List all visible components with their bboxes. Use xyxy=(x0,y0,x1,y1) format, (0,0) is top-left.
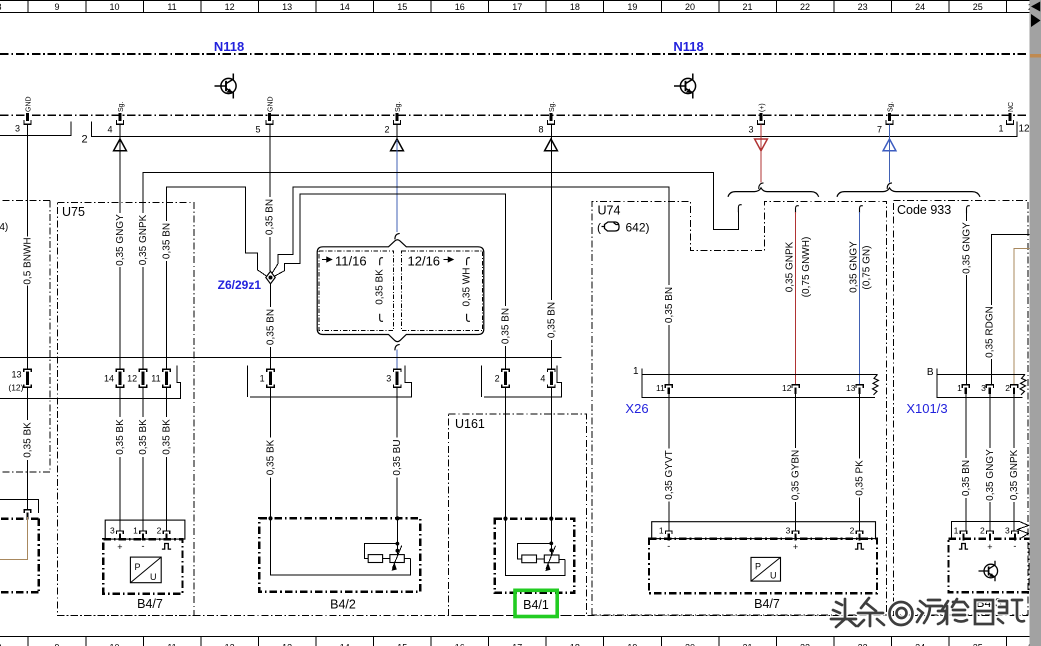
wire X101/3 pin3 to B4/3 pin 2 xyxy=(989,394,991,531)
svg-text:B4/2: B4/2 xyxy=(330,598,356,612)
arrow into 11/16 xyxy=(322,257,332,262)
wire label 0,35 BN pin5 xyxy=(265,197,276,237)
svg-text:13: 13 xyxy=(11,370,21,380)
svg-text:GND: GND xyxy=(25,96,32,112)
N118 box upper boundary xyxy=(0,53,1029,55)
top ruler xyxy=(0,0,1038,12)
wire pin5 BN down to junction xyxy=(269,125,271,272)
wire pin7 blue to brace xyxy=(889,125,891,183)
wire label 0,35 BN U74 xyxy=(664,285,675,325)
B4/1 entry dots xyxy=(503,517,507,521)
wire pin13 down to left component xyxy=(27,387,29,510)
X101/3 zigzag xyxy=(1020,374,1026,394)
svg-text:P: P xyxy=(135,562,141,572)
svg-text:2: 2 xyxy=(1005,383,1010,393)
svg-text:23: 23 xyxy=(858,643,868,646)
svg-text:2: 2 xyxy=(81,134,87,146)
svg-text:14: 14 xyxy=(340,2,350,12)
svg-text:+: + xyxy=(987,542,992,552)
svg-text:20: 20 xyxy=(685,2,695,12)
shield inner box 12/16 xyxy=(402,251,483,330)
watermark 头条@汽修日记 xyxy=(831,598,1024,627)
svg-text:13: 13 xyxy=(282,2,292,12)
X26 zigzag xyxy=(873,374,879,394)
svg-text:(0,75 GN): (0,75 GN) xyxy=(862,246,873,290)
svg-text:U161: U161 xyxy=(455,417,485,431)
scroll arrow left xyxy=(1031,2,1040,12)
scroll arrow right xyxy=(1031,14,1041,27)
hook top WH xyxy=(467,258,470,266)
svg-text:15: 15 xyxy=(397,2,407,12)
svg-text:1: 1 xyxy=(633,366,639,377)
pin 2 Sg. of N118 xyxy=(394,113,401,124)
hook red wire GNPK xyxy=(796,206,799,214)
wire label 0,5 BNWH xyxy=(22,237,33,286)
wire RDGN to X101/3 pin 3 xyxy=(991,235,1041,385)
squiggle above shielded cable xyxy=(395,233,400,239)
connector shell B4/1 group xyxy=(482,366,562,398)
wire X26 pin12 to B4/7 right pin 3 xyxy=(795,394,797,531)
svg-text:0,35 BK: 0,35 BK xyxy=(162,419,173,455)
B4/1 thermistor arrow xyxy=(546,546,556,569)
B4/7 right pin 3 xyxy=(792,531,799,541)
B4/7 right pin 1 xyxy=(666,531,673,541)
svg-text:0,35 BN: 0,35 BN xyxy=(162,223,173,259)
harness brace right xyxy=(837,188,980,197)
X101/3 pin 1 xyxy=(962,385,969,394)
pin 4 row B4/1 xyxy=(548,369,555,387)
svg-text:12/16: 12/16 xyxy=(408,254,441,269)
pin 8 Sg. of N118 xyxy=(548,113,555,124)
svg-text:3: 3 xyxy=(386,374,391,384)
B4/1 internal top loop xyxy=(518,543,552,559)
red wire GNPK to X26 pin 12 xyxy=(795,212,797,385)
green highlight box xyxy=(515,590,557,616)
svg-text:3: 3 xyxy=(15,124,20,134)
B4/7 left pin 2 xyxy=(163,531,170,541)
svg-text:1: 1 xyxy=(659,526,664,536)
svg-text:(+): (+) xyxy=(759,103,766,112)
B4/1 internal left loop xyxy=(506,519,566,576)
arrow down pin 3 (+) red xyxy=(755,139,768,151)
wire pin4 row into B4/1 xyxy=(550,387,552,518)
svg-text:B4/7: B4/7 xyxy=(754,597,780,611)
transistor symbol right inside N118 xyxy=(674,74,696,99)
svg-text:3: 3 xyxy=(1005,526,1010,536)
wire pin3+ red to brace xyxy=(760,125,762,183)
shielded cable outline with braces xyxy=(317,240,484,342)
B4/7 right P/U symbol xyxy=(751,557,781,581)
svg-text:0,35 GNGY: 0,35 GNGY xyxy=(115,214,126,266)
squiggle end blue wire xyxy=(887,183,892,189)
brown wire inside left component xyxy=(0,517,28,560)
left component pin xyxy=(24,510,31,520)
svg-text:0,35 BN: 0,35 BN xyxy=(501,308,512,344)
svg-text:18: 18 xyxy=(570,2,580,12)
arrow up pin 2 xyxy=(391,139,404,151)
svg-text:12: 12 xyxy=(225,643,235,646)
svg-text:+: + xyxy=(117,542,122,552)
svg-text:16: 16 xyxy=(455,643,465,646)
left cut component box xyxy=(0,200,50,472)
B4/2 entry dots xyxy=(268,516,272,520)
svg-text:0,35 BK: 0,35 BK xyxy=(138,419,149,455)
solder junction Z6/29z1 diamond xyxy=(266,271,275,284)
svg-text:X26: X26 xyxy=(625,401,648,416)
svg-text:8: 8 xyxy=(0,643,2,646)
svg-text:1: 1 xyxy=(260,374,265,384)
svg-text:14: 14 xyxy=(104,374,114,384)
svg-text:3: 3 xyxy=(981,383,986,393)
svg-text:15: 15 xyxy=(397,643,407,646)
svg-text:U75: U75 xyxy=(62,205,85,219)
svg-text:0,35 GNGY: 0,35 GNGY xyxy=(962,222,973,274)
svg-text:1: 1 xyxy=(957,383,962,393)
svg-text:5: 5 xyxy=(255,125,260,135)
svg-text:GND: GND xyxy=(267,96,274,112)
hook bottom BK xyxy=(380,314,383,322)
svg-text:0,35 BN: 0,35 BN xyxy=(266,309,277,345)
svg-text:(0,75 GNWH): (0,75 GNWH) xyxy=(801,237,812,298)
pin 7 Sg. of N118 xyxy=(886,113,893,124)
svg-text:0,35 GNPK: 0,35 GNPK xyxy=(1009,449,1020,500)
svg-text:(: ( xyxy=(597,221,601,235)
hook GNGY Code933 xyxy=(967,206,970,214)
left component box cut xyxy=(0,519,39,593)
svg-text:0,35 PK: 0,35 PK xyxy=(855,460,866,496)
svg-text:U: U xyxy=(150,572,157,582)
svg-text:20: 20 xyxy=(685,643,695,646)
B4/3 component box xyxy=(949,539,1030,593)
svg-text:12: 12 xyxy=(127,374,137,384)
svg-text:X101/3: X101/3 xyxy=(906,401,947,416)
svg-text:0,35 BN: 0,35 BN xyxy=(546,302,557,338)
wire pin8 BN down to pin 4 of B4/1 xyxy=(550,125,552,370)
svg-text:17: 17 xyxy=(512,2,522,12)
X26 pin 13 xyxy=(856,385,863,394)
pin 11 row xyxy=(163,369,170,387)
wire label 0,35 GNGY xyxy=(115,213,126,267)
wire pin2 blue down to shield xyxy=(396,140,398,232)
component box Code 933 xyxy=(894,201,1029,615)
svg-text:3: 3 xyxy=(110,526,115,536)
svg-text:11: 11 xyxy=(167,643,176,646)
pin 13 row xyxy=(24,369,31,387)
left component connector shell xyxy=(0,499,39,513)
component box U75 xyxy=(57,203,194,616)
B4/2 internal left loop xyxy=(271,518,411,575)
svg-text:21: 21 xyxy=(742,2,752,12)
connector shell B4/2 group xyxy=(248,366,412,398)
pin 5 GND of N118 xyxy=(266,113,273,124)
svg-text:9: 9 xyxy=(54,2,59,12)
B4/3 hall sensor symbol xyxy=(979,561,998,582)
wire X26 pin13 to B4/7 right pin 2 xyxy=(859,394,861,531)
pin 12 row xyxy=(139,369,146,387)
svg-text:13: 13 xyxy=(846,383,856,393)
scrollbar xyxy=(1030,0,1041,646)
wire pin3 row to B4/2 xyxy=(396,387,398,518)
svg-text:N118: N118 xyxy=(214,39,244,54)
B4/2 internal right wire xyxy=(396,518,398,554)
bus BN from U75 pin11 to junction xyxy=(167,187,267,369)
svg-text:9: 9 xyxy=(54,643,59,646)
svg-text:P: P xyxy=(755,562,761,572)
svg-text:+: + xyxy=(793,542,798,552)
arrow up pin 8 xyxy=(545,139,558,151)
svg-text:Sg.: Sg. xyxy=(549,101,556,112)
svg-text:8: 8 xyxy=(0,2,2,12)
B4/2 thermistor arrow xyxy=(392,546,402,569)
B4/1 internal right wire xyxy=(550,519,552,555)
svg-text:21: 21 xyxy=(742,643,752,646)
svg-text:12: 12 xyxy=(1018,124,1030,135)
svg-text:19: 19 xyxy=(627,643,637,646)
X101/3 pin 2 xyxy=(1010,385,1017,394)
svg-text:0,35 BN: 0,35 BN xyxy=(961,460,972,496)
blue wire shield to pin 3 row xyxy=(396,350,398,370)
svg-text:Sg.: Sg. xyxy=(887,101,894,112)
wire label 0,35 BN (B4/1 wire) xyxy=(500,306,511,346)
svg-text:0,35 GYBN: 0,35 GYBN xyxy=(791,450,802,501)
svg-text:NC: NC xyxy=(1008,102,1015,112)
wire pin2 upper stub xyxy=(396,125,398,141)
svg-text:1: 1 xyxy=(133,526,138,536)
svg-text:4: 4 xyxy=(540,374,545,384)
svg-text:0,35 GNPK: 0,35 GNPK xyxy=(138,214,149,265)
bus BN junction to B4/1 pin 2 xyxy=(274,194,506,369)
wire pin3 GND down to pin 13 xyxy=(27,125,29,370)
svg-text:(12): (12) xyxy=(8,383,23,393)
long connector line xyxy=(0,356,562,358)
wire label 0,35 BN (U75) xyxy=(161,221,172,261)
wire pin4 GNGY down to pin 14 xyxy=(119,125,121,370)
svg-text:24: 24 xyxy=(915,643,925,646)
svg-text:22: 22 xyxy=(800,2,810,12)
hook top BK xyxy=(380,258,383,266)
wire pin1 row to B4/2 xyxy=(270,387,272,518)
svg-text:10: 10 xyxy=(109,643,119,646)
X26 pin 11 xyxy=(665,385,672,394)
svg-text:Sg.: Sg. xyxy=(118,101,125,112)
svg-text:3: 3 xyxy=(786,526,791,536)
svg-text:11: 11 xyxy=(151,374,160,384)
X101/3 pin 3 xyxy=(986,385,993,394)
svg-text:0,35 WH: 0,35 WH xyxy=(462,268,473,307)
bus BN junction to U74/X26 pin 11 xyxy=(272,187,669,385)
component box U161 xyxy=(449,414,587,615)
svg-text:14: 14 xyxy=(340,643,350,646)
hook bottom WH xyxy=(467,314,470,322)
svg-text:0,35 BK: 0,35 BK xyxy=(375,269,386,305)
svg-text:B: B xyxy=(927,367,934,378)
svg-text:-: - xyxy=(667,541,670,551)
B4/1 resistor 1 xyxy=(522,555,537,563)
svg-text:2: 2 xyxy=(850,526,855,536)
pin 2 row B4/1 xyxy=(502,369,509,387)
wire label 0,35 GNPK (U75) xyxy=(138,213,149,267)
component box U74 with notch xyxy=(592,201,887,615)
svg-text:(4): (4) xyxy=(0,222,8,233)
sensor B4/7 right connector box xyxy=(652,522,876,539)
svg-text:2: 2 xyxy=(495,374,500,384)
connector X101/3 bar xyxy=(937,369,1025,398)
connector bar 1 at N118 xyxy=(0,122,71,136)
B4/2 resistor 1 xyxy=(368,555,382,563)
svg-text:0,5 BNWH: 0,5 BNWH xyxy=(23,237,34,284)
N118 box lower boundary (pin edge) xyxy=(0,114,1029,116)
svg-text:7: 7 xyxy=(877,125,882,135)
svg-text:1: 1 xyxy=(954,526,959,536)
svg-text:Z6/29z1: Z6/29z1 xyxy=(218,278,262,292)
B4/3 pin 1 xyxy=(960,531,967,541)
svg-text:0,35 GNGY: 0,35 GNGY xyxy=(985,449,996,501)
svg-text:B4/7: B4/7 xyxy=(137,597,163,611)
bottom ruler xyxy=(0,637,1038,646)
hook blue wire GNGY xyxy=(860,206,863,214)
svg-text:0,35 BN: 0,35 BN xyxy=(265,199,276,235)
wire X101/3 pin1 to B4/3 pin 1 xyxy=(965,394,967,531)
svg-text:23: 23 xyxy=(858,2,868,12)
svg-text:11: 11 xyxy=(656,383,665,393)
svg-text:12: 12 xyxy=(225,2,235,12)
svg-text:24: 24 xyxy=(915,2,925,12)
svg-text:-: - xyxy=(1013,541,1016,551)
bus GNPK from U75 to U74 hook xyxy=(143,173,738,370)
blue wire GNGY to X26 pin 13 xyxy=(859,212,861,385)
pin 3 GND of N118 xyxy=(24,113,31,124)
wire junction down to pin 1 of B4/2 xyxy=(270,284,272,369)
B4/7 right component box xyxy=(649,539,877,594)
svg-text:16: 16 xyxy=(455,2,465,12)
svg-text:4: 4 xyxy=(107,125,112,135)
svg-text:19: 19 xyxy=(627,2,637,12)
harness brace left xyxy=(728,188,819,197)
wire X101/3 pin2 to B4/3 pin 3 xyxy=(1013,394,1015,531)
svg-text:0,35 GNGY: 0,35 GNGY xyxy=(849,241,860,293)
transistor symbol left inside N118 xyxy=(215,74,237,99)
svg-text:25: 25 xyxy=(973,2,983,12)
B4/7 left pin 1 xyxy=(140,531,147,541)
pin 1 row B4/2 xyxy=(267,369,274,387)
wire X26 pin11 to B4/7 right pin 1 xyxy=(668,394,670,531)
svg-text:B4/1: B4/1 xyxy=(523,598,549,612)
svg-text:3: 3 xyxy=(748,125,753,135)
svg-text:U74: U74 xyxy=(598,204,621,218)
arrow out of 12/16 xyxy=(444,257,454,262)
svg-text:12: 12 xyxy=(782,383,792,393)
B4/7 left P/U symbol xyxy=(130,557,161,583)
connector bar 2 at N118 xyxy=(92,122,1018,137)
wire pin12 to B4/7 pin 1 xyxy=(142,387,144,531)
hook end of GNPK bus xyxy=(738,205,741,213)
wire label 0,35 RDGN xyxy=(986,305,997,359)
wire label 0,35 BN pin8 xyxy=(546,300,557,340)
arrow up pin 7 blue xyxy=(883,139,896,151)
bottom boundary dash-dot line xyxy=(57,615,1028,617)
svg-text:N118: N118 xyxy=(673,39,703,54)
svg-text:10: 10 xyxy=(109,2,119,12)
svg-text:1: 1 xyxy=(998,124,1003,134)
brown wire to X101/3 pin 2 xyxy=(1014,249,1041,385)
pin 14 row xyxy=(116,369,123,387)
svg-text:0,35 BN: 0,35 BN xyxy=(664,287,675,323)
sensor B4/2 component box xyxy=(259,518,420,591)
pin 3 row B4/2 xyxy=(394,369,401,387)
X26 pin 12 xyxy=(792,385,799,394)
svg-text:Code 933: Code 933 xyxy=(897,203,951,217)
svg-text:2: 2 xyxy=(384,125,389,135)
svg-text:2: 2 xyxy=(980,526,985,536)
arrow up pin 4 xyxy=(114,139,127,151)
sensor B4/1 component box xyxy=(495,519,575,593)
B4/7 left pin 3 xyxy=(117,531,124,541)
B4/2 thermistor xyxy=(390,555,404,563)
squiggle below shielded cable xyxy=(395,344,400,350)
sensor B4/7 left connector box xyxy=(105,520,185,539)
svg-text:642): 642) xyxy=(626,221,650,235)
wire pin14 to B4/7 pin 3 xyxy=(119,387,121,531)
wire pin11 to B4/7 pin 2 xyxy=(166,387,168,531)
sensor B4/3 connector box xyxy=(952,522,1021,540)
svg-text:0,35 BU: 0,35 BU xyxy=(392,439,403,475)
B4/3 pin 3 xyxy=(1012,531,1019,541)
svg-text:2: 2 xyxy=(157,526,162,536)
svg-text:U: U xyxy=(770,571,777,581)
wire GNGY Code933 to X101/3 pin 1 xyxy=(966,212,968,385)
svg-text:0,35 RDGN: 0,35 RDGN xyxy=(985,306,996,358)
svg-text:18: 18 xyxy=(570,643,580,646)
B4/3 pin 2 xyxy=(987,531,994,541)
pin 3 (+) of N118 xyxy=(758,113,765,124)
wire label 0,35 GNGY Code933 xyxy=(961,221,972,275)
svg-text:Sg.: Sg. xyxy=(395,101,402,112)
svg-text:0,35 GNPK: 0,35 GNPK xyxy=(785,241,796,292)
svg-text:25: 25 xyxy=(973,643,983,646)
svg-text:17: 17 xyxy=(512,643,522,646)
svg-text:22: 22 xyxy=(800,643,810,646)
B4/3 connector zigzag xyxy=(1018,522,1029,539)
svg-text:0,35 BK: 0,35 BK xyxy=(23,422,34,458)
B4/7 left component box xyxy=(103,539,182,594)
wire label 0,35 BN below junction xyxy=(265,307,276,347)
connector X26 bar xyxy=(642,369,878,398)
pin 1 NC of N118 xyxy=(1007,113,1014,124)
wire pin2 row into B4/1 xyxy=(505,387,507,518)
B4/1 thermistor xyxy=(544,555,559,563)
svg-text:0,35 BK: 0,35 BK xyxy=(266,439,277,475)
shield inner box 11/16 xyxy=(319,251,394,330)
svg-text:13: 13 xyxy=(282,643,292,646)
svg-text:0,35 BK: 0,35 BK xyxy=(115,419,126,455)
squiggle end red wire xyxy=(759,183,764,189)
svg-text:8: 8 xyxy=(538,125,543,135)
svg-text:11/16: 11/16 xyxy=(335,254,367,269)
pin 4 Sg. of N118 xyxy=(117,113,124,124)
svg-text:0,35 GYVT: 0,35 GYVT xyxy=(664,450,675,499)
B4/7 right pin 2 xyxy=(856,531,863,541)
svg-text:11: 11 xyxy=(167,2,176,12)
svg-text:-: - xyxy=(142,541,145,551)
B4/2 internal top loop xyxy=(364,544,397,559)
connector shell left group xyxy=(0,366,181,399)
